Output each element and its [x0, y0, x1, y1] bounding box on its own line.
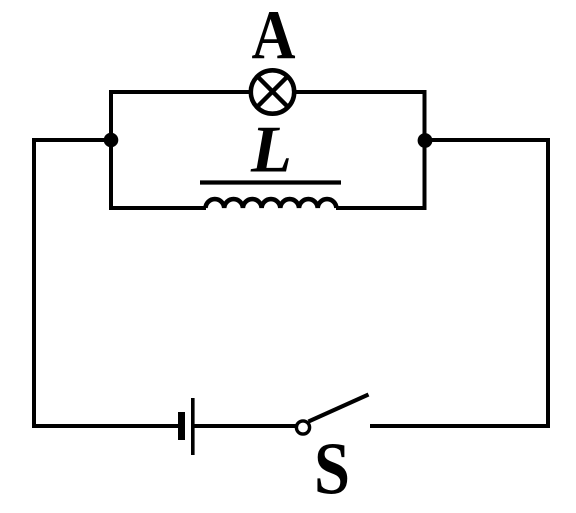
wire: left connector (outer to node)	[32, 138, 111, 142]
lamp A cross stroke 2	[258, 77, 288, 107]
wire: outer right vertical	[546, 138, 550, 428]
lamp A bulb circle	[251, 70, 294, 113]
svg-text:S: S	[314, 429, 350, 511]
wire: inner bottom wire, right of coil	[336, 206, 427, 210]
wire: right connector (node to outer)	[425, 138, 551, 142]
wire: inner top wire, right of lamp	[293, 90, 427, 94]
svg-text:A: A	[252, 0, 296, 75]
wire: outer bottom right segment	[370, 424, 550, 428]
switch S lever arm	[309, 395, 369, 422]
wire: inner bottom wire, left of coil	[109, 206, 206, 210]
wire: outer left vertical	[32, 138, 36, 428]
svg-text:L: L	[250, 113, 292, 187]
wire: inner loop left vertical	[109, 90, 113, 210]
battery G (thin long positive plate)	[191, 398, 195, 455]
node: right junction dot	[418, 133, 433, 148]
wire: outer bottom left segment	[32, 424, 179, 428]
inductor L coil (7 humps)	[206, 199, 337, 208]
wire: inner loop right vertical	[423, 90, 427, 210]
battery G (thick short negative plate)	[178, 412, 185, 440]
switch S pivot circle	[296, 421, 309, 434]
node: left junction dot	[104, 133, 119, 148]
inductor L iron core bar	[200, 180, 341, 184]
wire: inner top wire, left of lamp	[109, 90, 252, 94]
wire: outer bottom middle segment (battery to switch)	[195, 424, 297, 428]
lamp A cross stroke 1	[258, 77, 288, 107]
